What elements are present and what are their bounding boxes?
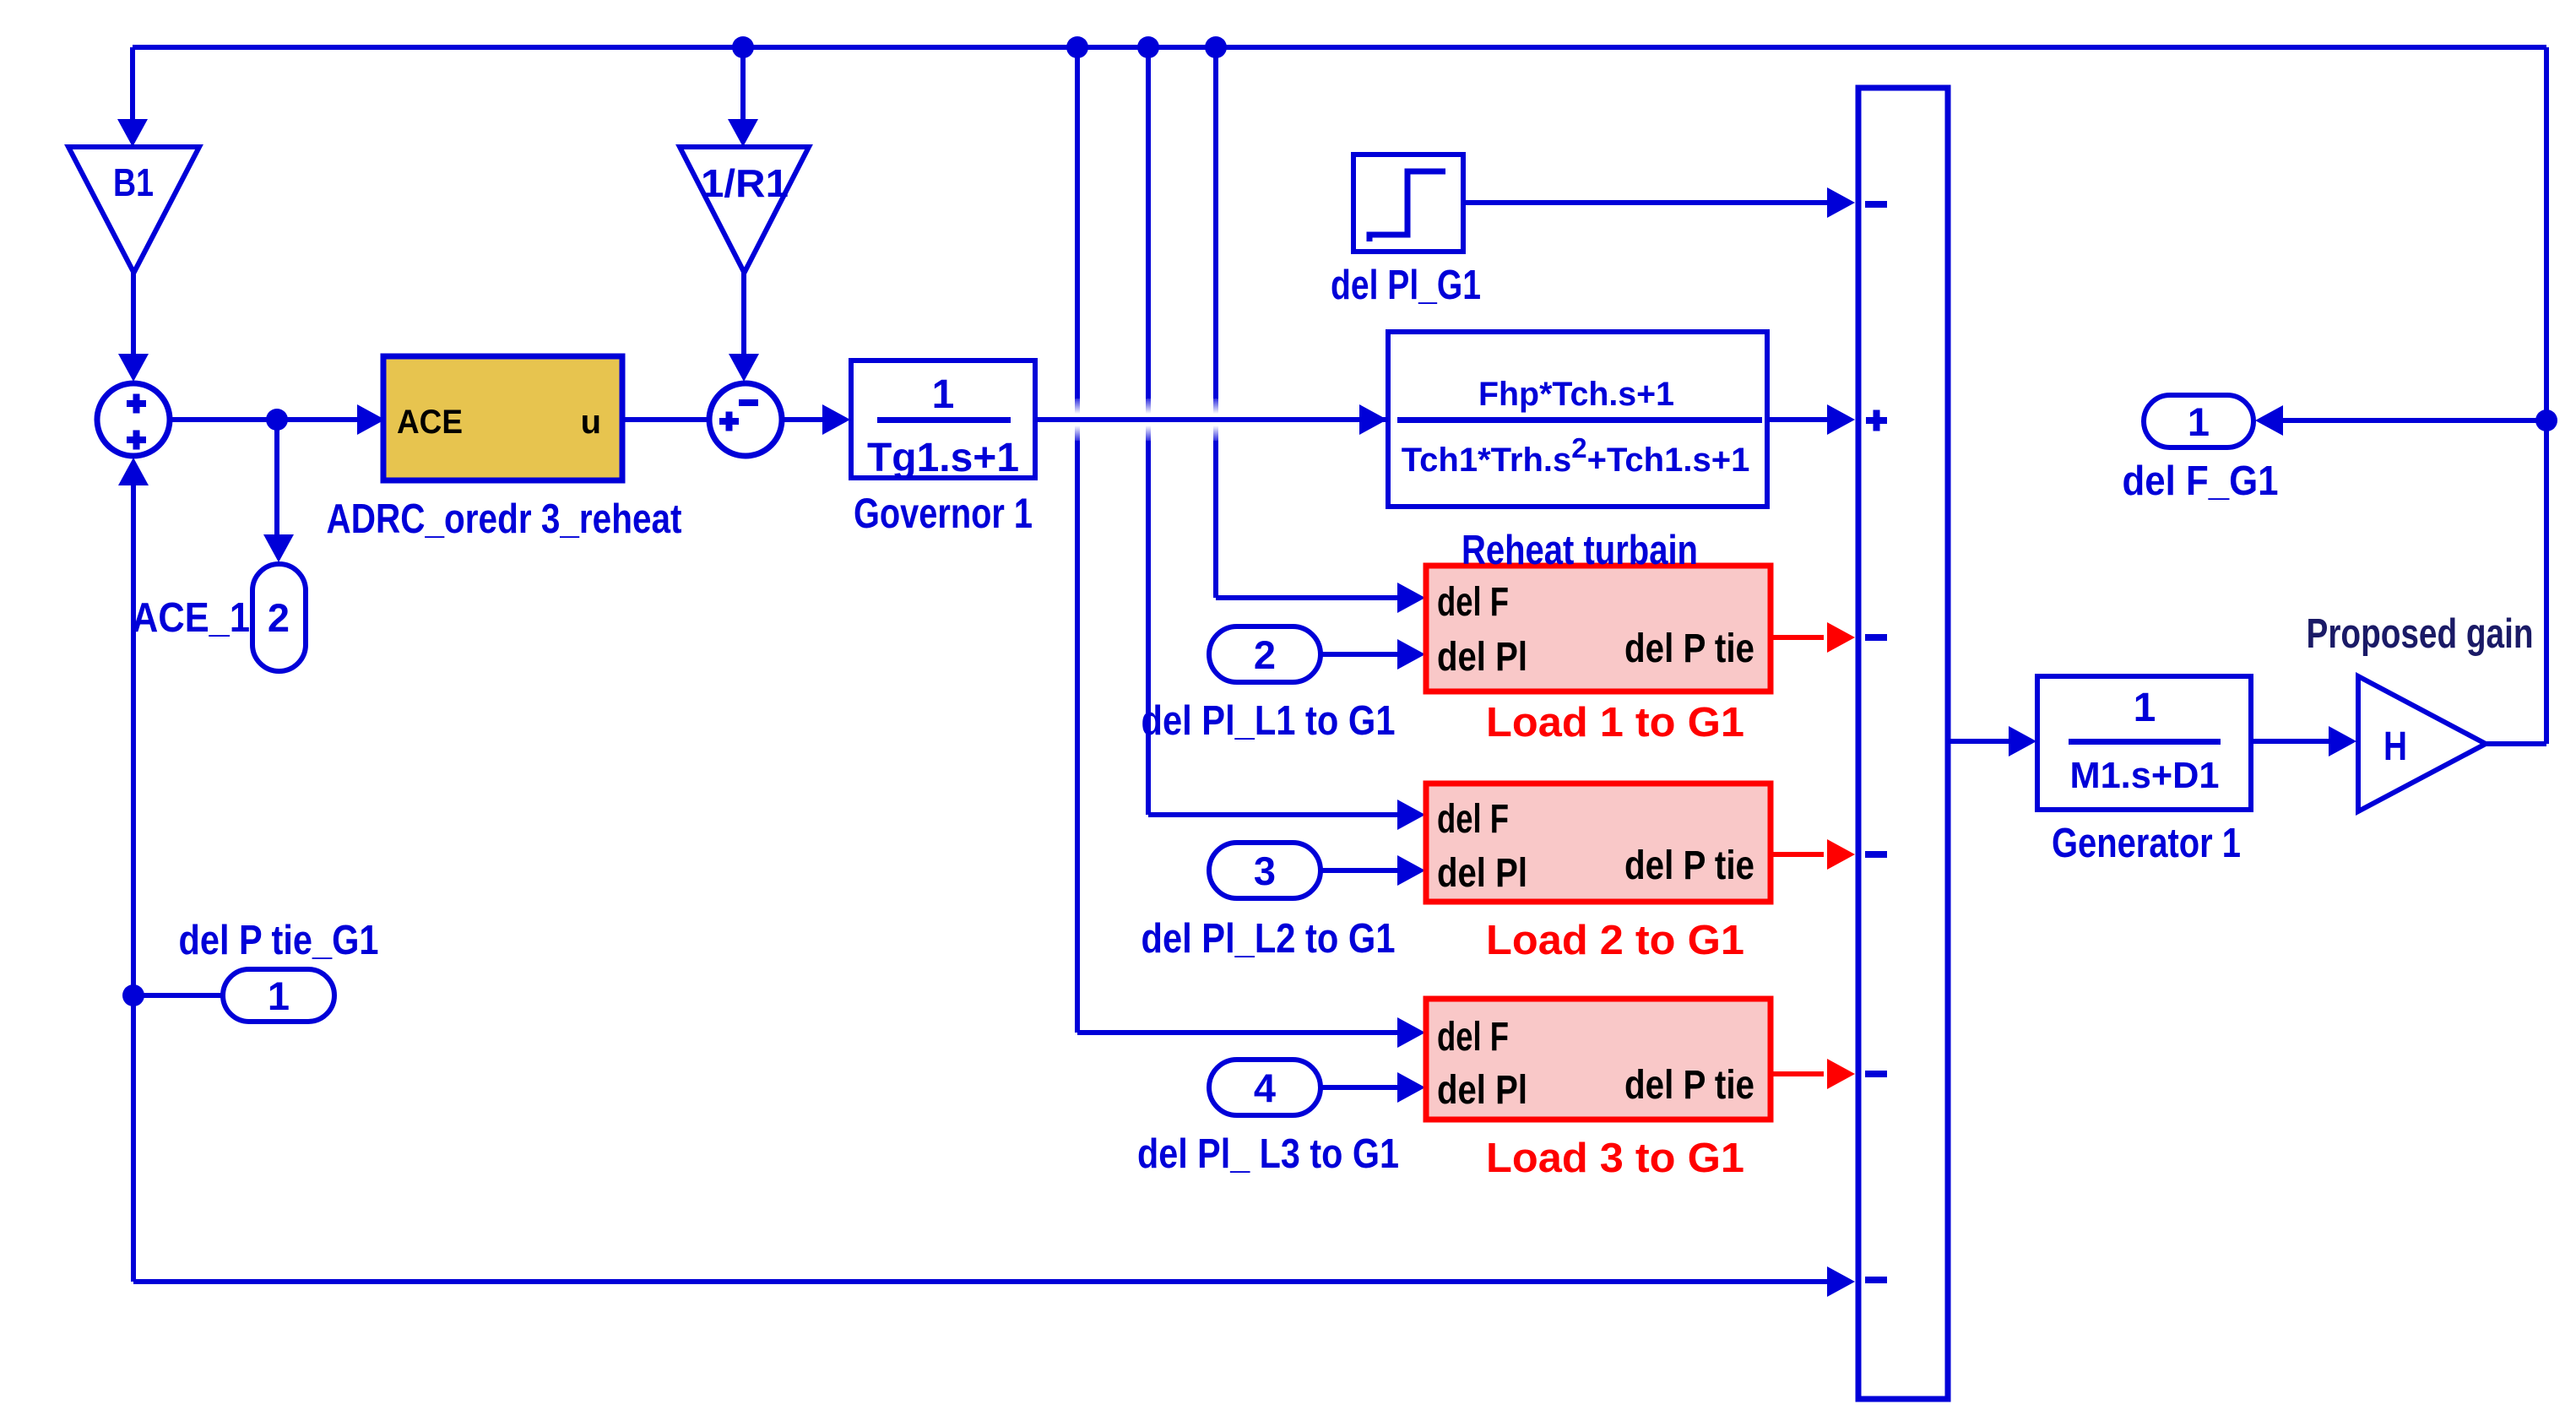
text 3 inport oval [1254, 849, 1276, 893]
arrow into 1/R1 [728, 119, 758, 147]
text del P tie Load 1 [1624, 626, 1754, 671]
wire B1 output to sum S1 [131, 270, 136, 359]
junction at ACE input branch [266, 409, 288, 431]
svg-text:del F: del F [1437, 580, 1509, 625]
arrow into ACE block [357, 404, 385, 435]
text 2 inport oval [1254, 632, 1276, 677]
junction on bus at Load2 branch [1137, 36, 1159, 58]
arrow reheat into big sum [1827, 404, 1855, 435]
block Reheat turbine transfer function [1388, 332, 1767, 507]
sign minus for Load 2 tie [1865, 851, 1887, 858]
junction on left riser at del P tie_G1 tap [122, 984, 144, 1006]
svg-text:3: 3 [1254, 849, 1276, 893]
text ACE in subsystem [397, 404, 463, 441]
label del Pl_ L3 to G1 [1137, 1131, 1399, 1177]
text 1 numerator Generator [2134, 686, 2156, 730]
sign minus for step input [1865, 201, 1887, 208]
gain B1 triangle [68, 147, 199, 273]
wire drop into 1/R1 [740, 47, 746, 127]
wire vertical del F to Load 3 [1077, 47, 1403, 1033]
label Generator 1 [2052, 821, 2241, 866]
wire ACE output to sum S2 [622, 417, 708, 422]
sign minus for bottom feedback [1865, 1277, 1887, 1283]
label del F_G1 [2123, 458, 2279, 504]
svg-text:2: 2 [1254, 632, 1276, 677]
svg-text:del Pl: del Pl [1437, 851, 1527, 896]
junction on right riser at del F_G1 tap [2535, 409, 2557, 431]
wire step del Pl_G1 to big sum [1463, 200, 1834, 205]
outport 1 oval del P tie_G1 [223, 969, 334, 1022]
svg-text:Fhp*Tch.s+1: Fhp*Tch.s+1 [1478, 376, 1674, 413]
label ACE_1 [132, 595, 250, 641]
label Governor 1 [854, 490, 1033, 537]
subsystem Load 1 to G1 [1426, 566, 1771, 691]
text del Pl Load 1 [1437, 635, 1527, 680]
wire vertical del F to Load 2 [1148, 47, 1403, 815]
svg-text:del Pl: del Pl [1437, 635, 1527, 680]
wire sum S2 to Governor 1 [782, 417, 829, 422]
svg-text:del F: del F [1437, 797, 1509, 842]
arrow into B1 [117, 119, 148, 147]
sum S2 circle [709, 383, 782, 456]
text Tg1.s+1 denominator Governor [867, 436, 1019, 480]
sign plus for reheat input [1866, 417, 1887, 424]
label Proposed gain [2307, 611, 2534, 657]
arrow into outport ACE_1 [263, 534, 294, 562]
svg-text:Load 1 to G1: Load 1 to G1 [1486, 700, 1744, 746]
wire big sum output to Generator 1 [1950, 739, 2015, 744]
text del F Load 2 [1437, 797, 1509, 842]
inport 4 oval [1209, 1060, 1321, 1115]
red tie-line wires [1771, 637, 1824, 1074]
outport 2 capsule ACE_1 [252, 564, 306, 671]
label del Pl_G1 [1331, 263, 1481, 308]
svg-text:del P tie: del P tie [1624, 626, 1754, 671]
svg-text:del Pl_G1: del Pl_G1 [1331, 263, 1481, 308]
svg-text:Load 2 to G1: Load 2 to G1 [1486, 918, 1744, 963]
crossing halo fades on vertical wires [1047, 395, 1773, 444]
inport 3 oval [1209, 843, 1321, 898]
svg-text:Generator 1: Generator 1 [2052, 821, 2241, 866]
arrow Load 2 tie into big sum [1827, 839, 1855, 870]
subsystem Load 3 to G1 [1426, 999, 1771, 1120]
svg-text:del Pl: del Pl [1437, 1068, 1527, 1113]
junction on bus at Load3 branch [1066, 36, 1088, 58]
svg-text:Reheat turbain: Reheat turbain [1462, 528, 1698, 573]
wire sum S1 bottom feedback riser [133, 481, 1834, 1282]
svg-text:1: 1 [2188, 399, 2210, 444]
subsystem Load 2 to G1 [1426, 783, 1771, 902]
text del Pl Load 3 [1437, 1068, 1527, 1113]
svg-text:H: H [2383, 724, 2407, 769]
label Load 2 to G1 [1486, 918, 1744, 963]
wire right feedback riser [2544, 47, 2549, 744]
svg-text:ADRC_oredr 3_reheat: ADRC_oredr 3_reheat [327, 496, 682, 542]
label ADRC_oredr 3_reheat [327, 496, 682, 542]
arrow into gain H [2329, 726, 2356, 756]
block Governor 1 transfer function [851, 361, 1035, 478]
label Load 3 to G1 [1486, 1136, 1744, 1181]
label B1 [113, 160, 154, 204]
svg-text:1/R1: 1/R1 [701, 161, 789, 205]
text Tch1*Trh.s2+Tch1.s+1 denominator Reheat [1402, 432, 1750, 479]
label del Pl_L1 to G1 [1142, 698, 1396, 744]
svg-text:del P tie_G1: del P tie_G1 [179, 918, 379, 963]
wire inport 4 to Load 3 del Pl [1321, 1085, 1403, 1090]
wire gain H output to right feedback riser [2486, 741, 2546, 746]
svg-text:Load 3 to G1: Load 3 to G1 [1486, 1136, 1744, 1181]
text H in gain [2383, 724, 2407, 769]
sign minus for Load 1 tie [1865, 634, 1887, 641]
arrow Load 1 tie into big sum [1827, 622, 1855, 653]
arrow into Load 3 del F [1397, 1017, 1425, 1048]
text del Pl Load 2 [1437, 851, 1527, 896]
svg-text:Tg1.s+1: Tg1.s+1 [867, 436, 1019, 480]
wire Load 2 del P tie to big sum [1771, 852, 1824, 857]
arrow Load 3 tie into big sum [1827, 1059, 1855, 1089]
wire Generator 1 to gain H [2251, 739, 2334, 744]
arrow into Load 1 del Pl [1397, 639, 1425, 670]
outport 1 oval del F_G1 [2144, 395, 2253, 447]
junction on bus at Load1 branch [1205, 36, 1227, 58]
svg-text:del Pl_ L3 to G1: del Pl_ L3 to G1 [1137, 1131, 1399, 1177]
svg-text:2: 2 [268, 595, 290, 640]
gain 1/R1 triangle [680, 147, 809, 273]
svg-text:del P tie: del P tie [1624, 843, 1754, 888]
inport 2 oval [1209, 626, 1321, 682]
wire inport 2 to Load 1 del Pl [1321, 652, 1403, 657]
svg-text:del P tie: del P tie [1624, 1063, 1754, 1108]
label del Pl_L2 to G1 [1142, 916, 1396, 962]
arrow into Generator 1 [2009, 726, 2036, 756]
arrow into Load 3 del Pl [1397, 1072, 1425, 1103]
wire sum S1 to ACE block [170, 417, 363, 422]
text del P tie Load 2 [1624, 843, 1754, 888]
arrow bottom feedback into big sum [1827, 1266, 1855, 1297]
wire left drop into B1 [130, 47, 135, 127]
text Fhp*Tch.s+1 numerator Reheat [1478, 376, 1674, 413]
svg-text:1: 1 [268, 973, 290, 1018]
arrow into outport del F_G1 [2255, 405, 2283, 436]
svg-text:Proposed gain: Proposed gain [2307, 611, 2534, 657]
big sum block [1858, 88, 1948, 1399]
svg-text:1: 1 [932, 372, 955, 417]
text u in subsystem [581, 404, 601, 441]
wire Load 3 del P tie to big sum [1771, 1071, 1824, 1076]
wire Load 1 del P tie to big sum [1771, 635, 1824, 640]
sign minus for Load 3 tie [1865, 1071, 1887, 1077]
text del F Load 1 [1437, 580, 1509, 625]
svg-text:del F: del F [1437, 1015, 1509, 1060]
label 1/R1 [701, 161, 789, 205]
arrow step into big sum [1827, 187, 1855, 218]
svg-text:del Pl_L1 to G1: del Pl_L1 to G1 [1142, 698, 1396, 744]
arrow into Load 1 del F [1397, 583, 1425, 613]
arrow into Load 2 del F [1397, 800, 1425, 830]
text 1 numerator Governor [932, 372, 955, 417]
wire Governor 1 output to Reheat turbine [1035, 417, 1366, 422]
arrow into Reheat turbine [1359, 404, 1387, 435]
arrow into sum S1 top [118, 354, 149, 382]
svg-text:B1: B1 [113, 160, 154, 204]
gain H triangle (Proposed gain) [2358, 676, 2486, 811]
wire tap to outport del P tie_G1 [133, 993, 228, 998]
wire inport 3 to Load 2 del Pl [1321, 868, 1403, 873]
sum S1 circle [97, 383, 170, 456]
svg-text:M1.s+D1: M1.s+D1 [2070, 755, 2220, 796]
text M1.s+D1 denominator Generator [2070, 755, 2220, 796]
label Reheat turbain [1462, 528, 1698, 573]
label Load 1 to G1 [1486, 700, 1744, 746]
wire Reheat turbine to big sum [1767, 417, 1834, 422]
text 4 inport oval [1254, 1065, 1276, 1110]
wire branch down to outport ACE_1 [274, 420, 279, 540]
arrowheads blue [117, 119, 2356, 1297]
svg-text:Governor 1: Governor 1 [854, 490, 1033, 537]
subsystem ACE (ADRC_oredr 3_reheat) [383, 356, 622, 480]
text 2 in outport capsule [268, 595, 290, 640]
wire top feedback bus [133, 45, 2546, 50]
wire vertical del F to Load 1 [1216, 47, 1403, 598]
step source del Pl_G1 [1353, 155, 1463, 252]
junction on bus at 1/R1 [732, 36, 754, 58]
wire tap to outport del F_G1 [2280, 418, 2546, 423]
text 1 outport del P tie_G1 [268, 973, 290, 1018]
svg-text:del F_G1: del F_G1 [2123, 458, 2279, 504]
text del F Load 3 [1437, 1015, 1509, 1060]
svg-text:4: 4 [1254, 1065, 1276, 1110]
svg-text:1: 1 [2134, 686, 2156, 730]
svg-text:u: u [581, 404, 601, 441]
text 1 outport del F_G1 [2188, 399, 2210, 444]
block Generator 1 transfer function [2037, 676, 2251, 810]
arrow into Governor 1 [822, 404, 850, 435]
arrow into sum S2 top [729, 354, 759, 382]
wire 1/R1 output to sum S2 [741, 270, 746, 359]
svg-text:ACE_1: ACE_1 [132, 595, 250, 641]
arrow into Load 2 del Pl [1397, 855, 1425, 886]
arrow into sum S1 bottom [118, 458, 149, 485]
svg-text:ACE: ACE [397, 404, 463, 441]
svg-text:del Pl_L2 to G1: del Pl_L2 to G1 [1142, 916, 1396, 962]
text del P tie Load 3 [1624, 1063, 1754, 1108]
label del P tie_G1 [179, 918, 379, 963]
